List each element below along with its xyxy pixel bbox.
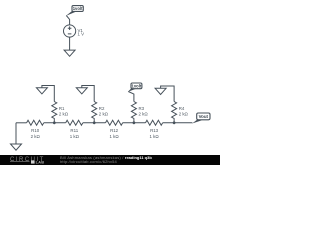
svg-text:R10: R10 bbox=[31, 128, 40, 133]
svg-text:R3: R3 bbox=[139, 106, 145, 111]
svg-text:Vout: Vout bbox=[199, 114, 209, 119]
svg-text:R13: R13 bbox=[150, 128, 159, 133]
svg-text:R2: R2 bbox=[99, 106, 105, 111]
svg-text:R4: R4 bbox=[179, 106, 185, 111]
svg-text:LAB: LAB bbox=[36, 161, 45, 165]
svg-text:2 kΩ: 2 kΩ bbox=[179, 111, 189, 116]
svg-text:R11: R11 bbox=[70, 128, 78, 133]
svg-text:1volt: 1volt bbox=[73, 6, 83, 11]
svg-text:1volt: 1volt bbox=[132, 83, 142, 88]
svg-text:1 V: 1 V bbox=[78, 32, 85, 37]
svg-text:2 kΩ: 2 kΩ bbox=[99, 111, 109, 116]
svg-text:http://circuitlab.com/c/62hx54: http://circuitlab.com/c/62hx54 bbox=[60, 159, 118, 164]
svg-text:2 kΩ: 2 kΩ bbox=[139, 111, 149, 116]
svg-text:2 kΩ: 2 kΩ bbox=[59, 111, 69, 116]
svg-text:1 kΩ: 1 kΩ bbox=[150, 134, 160, 139]
svg-text:2 kΩ: 2 kΩ bbox=[31, 134, 41, 139]
svg-text:1 kΩ: 1 kΩ bbox=[70, 134, 80, 139]
svg-text:R1: R1 bbox=[59, 106, 65, 111]
svg-text:1 kΩ: 1 kΩ bbox=[110, 134, 120, 139]
svg-text:R12: R12 bbox=[110, 128, 119, 133]
